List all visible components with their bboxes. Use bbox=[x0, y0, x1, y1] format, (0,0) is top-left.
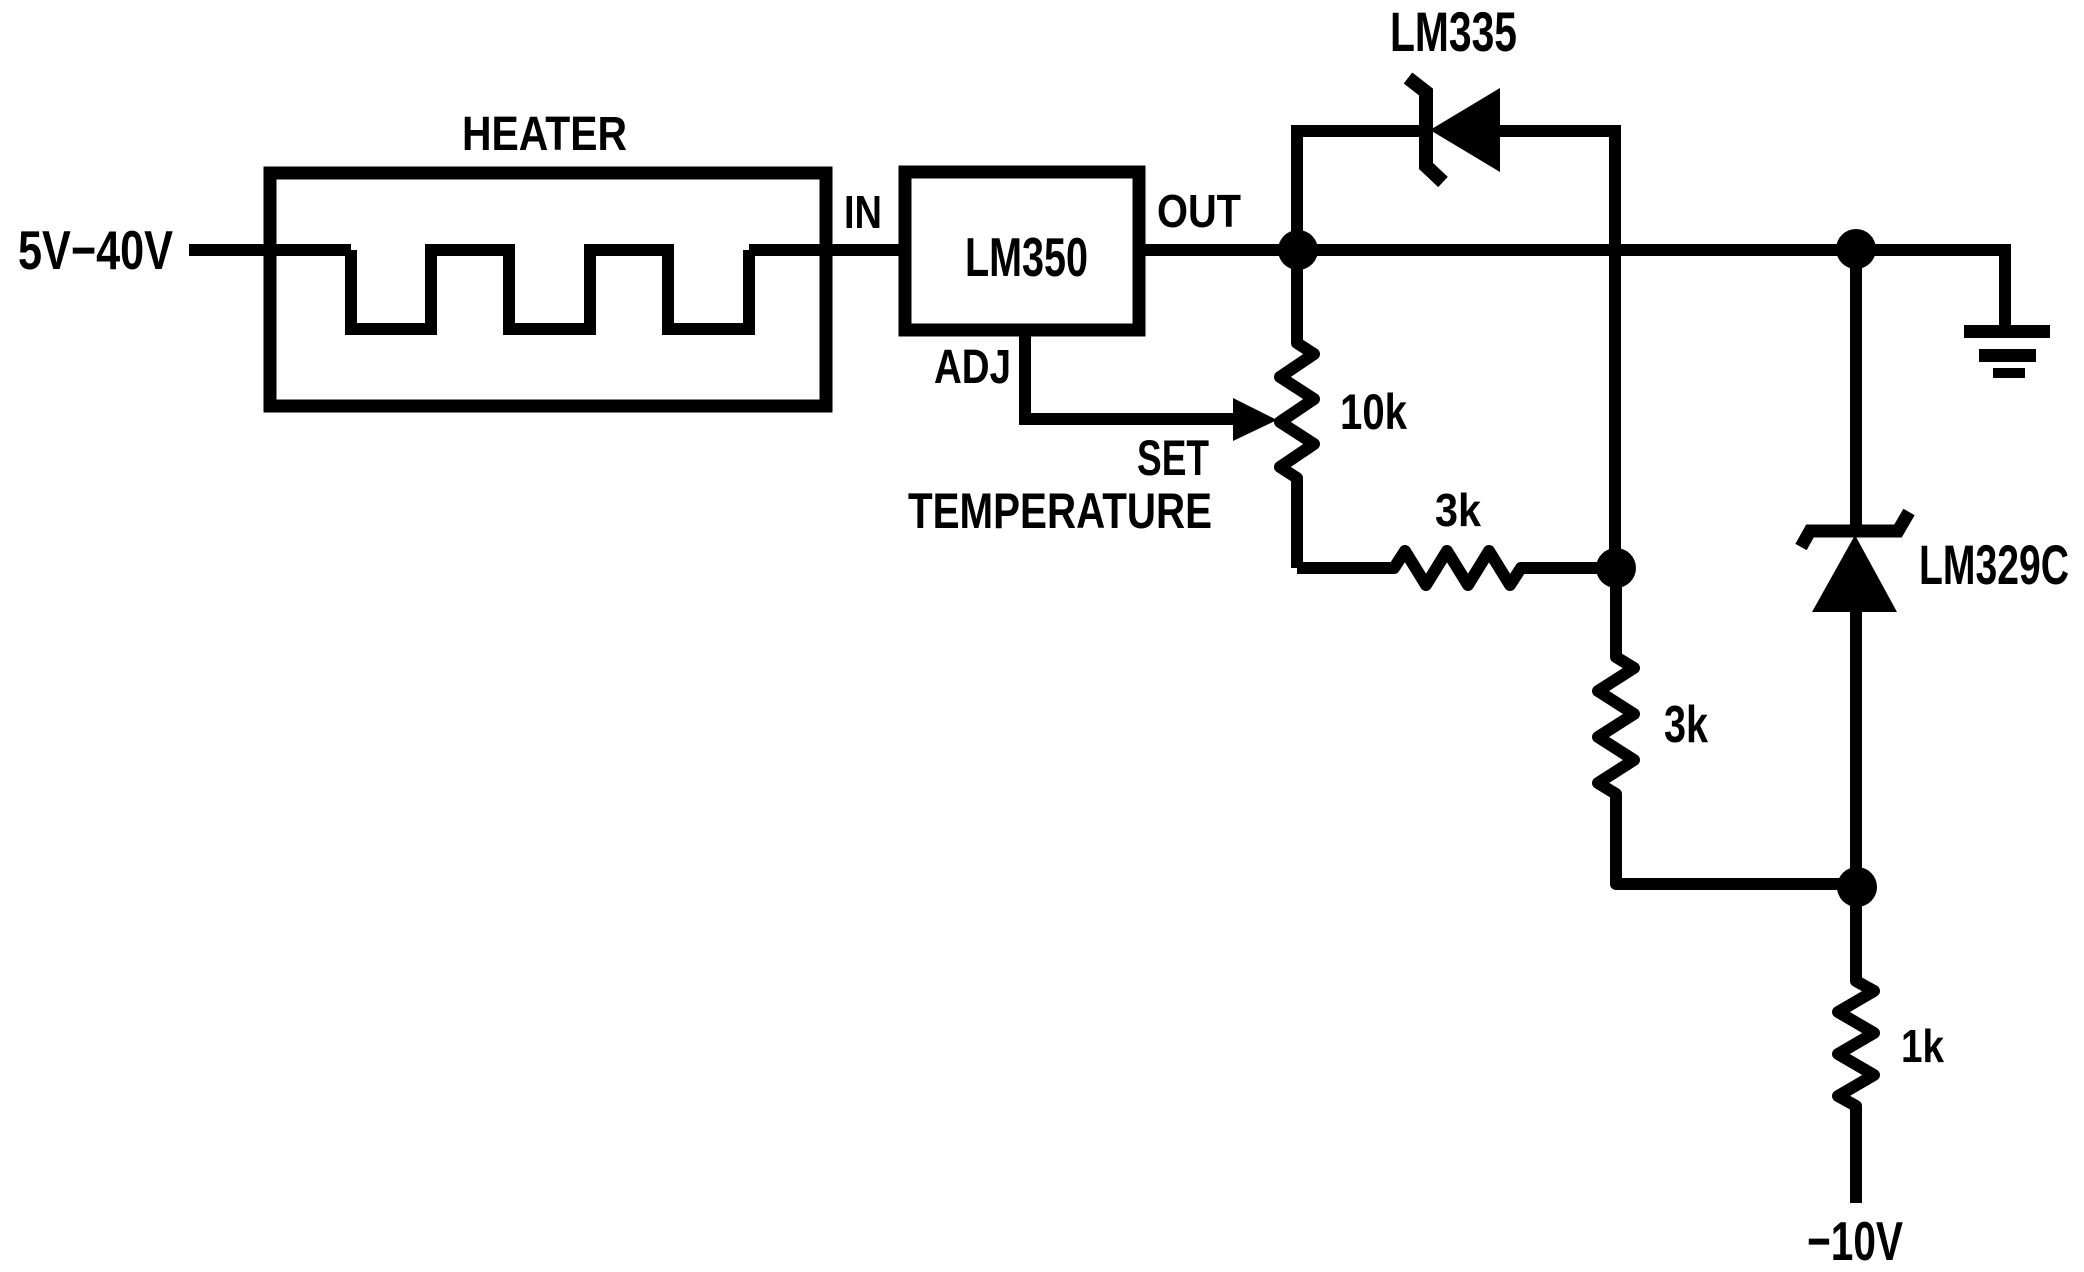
svg-text:10k: 10k bbox=[1340, 384, 1407, 440]
regulator U1 LM350 box bbox=[905, 172, 1139, 330]
label SET bbox=[1137, 430, 1209, 486]
zener D2 LM329C triangle bbox=[1812, 535, 1897, 612]
svg-text:1k: 1k bbox=[1901, 1020, 1944, 1072]
resistor R2 3k horizontal bbox=[1297, 551, 1616, 585]
wiper arrow head bbox=[1233, 398, 1277, 441]
wire: node A to node B (main output rail) bbox=[1296, 244, 1856, 256]
sensor D1 LM335 triangle bbox=[1430, 88, 1500, 172]
svg-text:TEMPERATURE: TEMPERATURE bbox=[908, 483, 1212, 539]
svg-text:OUT: OUT bbox=[1157, 185, 1241, 237]
svg-text:3k: 3k bbox=[1435, 484, 1481, 536]
wire: node A up to LM335 branch bbox=[1297, 131, 1420, 250]
svg-text:HEATER: HEATER bbox=[462, 108, 627, 161]
svg-text:SET: SET bbox=[1137, 430, 1209, 486]
svg-text:LM329C: LM329C bbox=[1919, 533, 2069, 596]
node B junction dot bbox=[1836, 229, 1876, 269]
wire: node B to ground corner bbox=[1856, 250, 2005, 325]
heater box bbox=[270, 173, 826, 406]
svg-text:IN: IN bbox=[844, 186, 882, 238]
svg-text:−10V: −10V bbox=[1807, 1210, 1903, 1272]
wire: heater to LM350 IN bbox=[749, 244, 899, 256]
wire: node B down to LM329C bbox=[1850, 250, 1862, 525]
resistor R4 1k bbox=[1838, 887, 1874, 1203]
label 3k vertical bbox=[1664, 696, 1708, 754]
label TEMPERATURE bbox=[908, 483, 1212, 539]
label ADJ bbox=[934, 341, 1011, 394]
resistor R3 3k vertical bbox=[1598, 568, 1857, 884]
node -10V supply label bbox=[1807, 1210, 1903, 1272]
ground bbox=[1964, 325, 2050, 378]
node 5V-40V input label bbox=[18, 219, 173, 281]
wire: input to heater bbox=[189, 244, 351, 256]
svg-text:5V−40V: 5V−40V bbox=[18, 219, 173, 281]
svg-text:ADJ: ADJ bbox=[934, 341, 1011, 394]
wire: ADJ pin to wiper arrow bbox=[1025, 330, 1240, 419]
pin label OUT bbox=[1157, 185, 1241, 237]
svg-text:LM350: LM350 bbox=[965, 226, 1088, 288]
svg-text:3k: 3k bbox=[1664, 696, 1708, 754]
wire: LM329C down to node D bbox=[1850, 612, 1862, 887]
node C junction dot bbox=[1596, 548, 1636, 588]
node A junction dot bbox=[1278, 230, 1318, 270]
node D junction dot bbox=[1837, 867, 1877, 907]
zener D2 LM329C bar bbox=[1801, 512, 1909, 547]
wire: LM335 to right vertical down to node C bbox=[1500, 131, 1615, 568]
label LM329C bbox=[1919, 533, 2069, 596]
label LM350 bbox=[965, 226, 1088, 288]
label 3k horizontal bbox=[1435, 484, 1481, 536]
heater element meander wire bbox=[351, 250, 749, 329]
label HEATER bbox=[462, 108, 627, 161]
potentiometer R1 10k bbox=[1280, 250, 1314, 568]
sensor D1 LM335 zener bar bbox=[1408, 78, 1443, 182]
wire: LM350 OUT to node A bbox=[1139, 244, 1296, 256]
label LM335 bbox=[1390, 0, 1517, 63]
label 1k bbox=[1901, 1020, 1944, 1072]
label 10k bbox=[1340, 384, 1407, 440]
svg-text:LM335: LM335 bbox=[1390, 0, 1517, 63]
pin label IN bbox=[844, 186, 882, 238]
